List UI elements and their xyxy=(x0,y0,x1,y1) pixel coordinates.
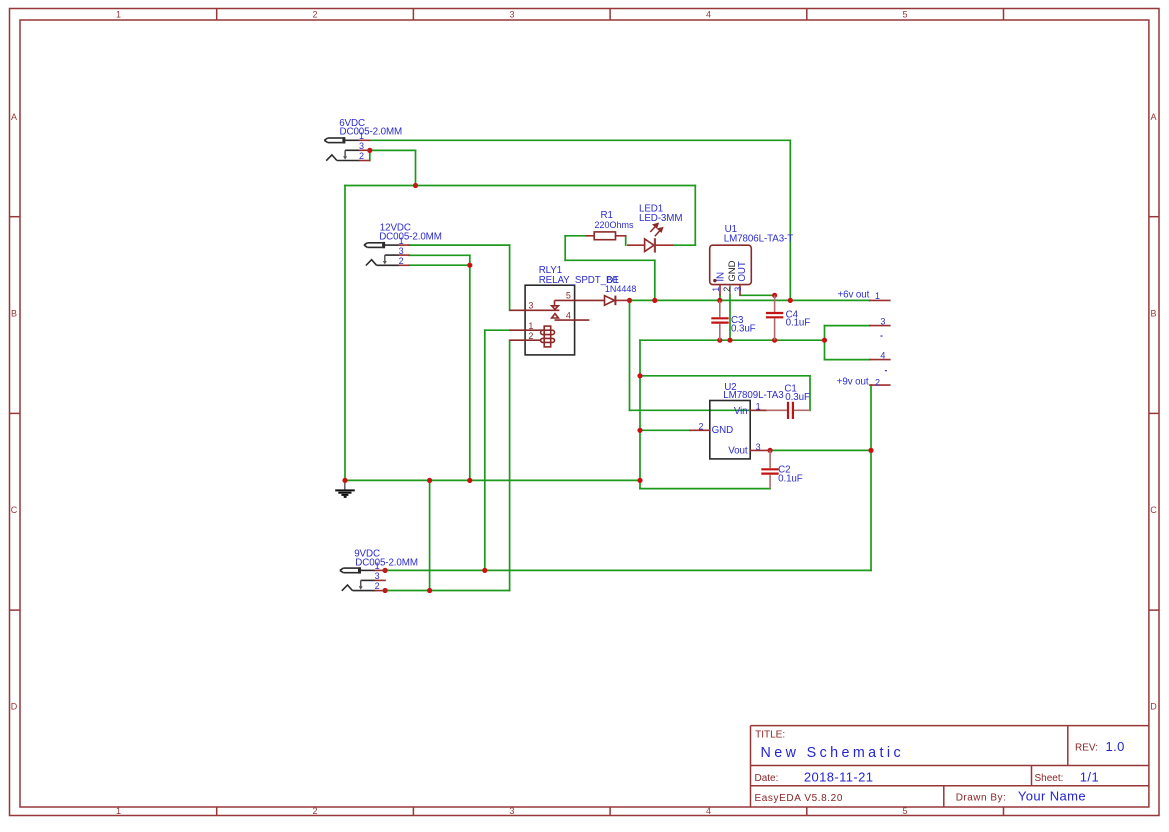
svg-text:Your Name: Your Name xyxy=(1018,789,1086,804)
title block xyxy=(751,726,1149,807)
svg-text:IN: IN xyxy=(716,272,727,282)
svg-text:Vout: Vout xyxy=(728,446,748,457)
junction 9VDC pin2 xyxy=(383,588,388,593)
junction U2 Vout xyxy=(768,448,773,453)
svg-text:1: 1 xyxy=(116,806,121,816)
wire 12VDC pin2 right xyxy=(409,264,470,266)
junction ground rail c xyxy=(637,478,642,483)
diode D1 1N4448 xyxy=(605,275,637,305)
svg-text:D: D xyxy=(11,702,18,712)
junction D1 cathode xyxy=(627,298,632,303)
svg-text:220Ohms: 220Ohms xyxy=(595,220,635,230)
svg-text:3: 3 xyxy=(399,246,404,256)
svg-text:1: 1 xyxy=(528,321,533,331)
svg-text:B: B xyxy=(1150,309,1156,319)
svg-text:2: 2 xyxy=(399,256,404,266)
svg-text:LM7809L-TA3: LM7809L-TA3 xyxy=(723,390,784,401)
svg-text:Date:: Date: xyxy=(755,773,779,784)
wire U2 Vin feed xyxy=(630,409,767,411)
wire to R1 left xyxy=(565,235,586,237)
svg-text:0.3uF: 0.3uF xyxy=(785,392,810,403)
svg-text:1: 1 xyxy=(756,402,761,412)
wire gnd rail y340 xyxy=(640,339,825,341)
svg-text:4: 4 xyxy=(566,311,571,321)
svg-text:TITLE:: TITLE: xyxy=(755,729,785,740)
junction relay feed 9v xyxy=(482,568,487,573)
wire C1 top horizontal xyxy=(640,375,810,377)
svg-text:2: 2 xyxy=(722,287,732,292)
svg-text:LM7806L-TA3-T: LM7806L-TA3-T xyxy=(724,233,793,244)
LED LED1 LED-3MM xyxy=(628,204,683,253)
svg-text:5: 5 xyxy=(566,290,571,300)
svg-text:REV:: REV: xyxy=(1075,743,1098,754)
svg-text:3: 3 xyxy=(509,10,514,20)
svg-text:2: 2 xyxy=(875,378,880,388)
junction C1 loop xyxy=(637,373,642,378)
frame column ticks top xyxy=(217,9,1004,21)
junction ground rail a xyxy=(427,478,432,483)
wire gnd to C2 bottom xyxy=(640,488,770,490)
svg-text:1: 1 xyxy=(875,291,880,301)
junction 9VDC gnd xyxy=(427,588,432,593)
wire +9v vertical xyxy=(870,385,872,570)
svg-text:EasyEDA V5.8.20: EasyEDA V5.8.20 xyxy=(755,793,844,804)
frame row ticks right xyxy=(1149,217,1159,610)
wire 6VDC pin3 right xyxy=(370,149,416,151)
ground xyxy=(335,483,355,497)
regulator U2 LM7809L-TA3 xyxy=(690,382,784,459)
relay RLY1 RELAY_SPDT xyxy=(510,265,620,355)
wire R1 left down xyxy=(564,236,566,260)
wire 6VDC pin3 to pin2 xyxy=(369,150,371,160)
svg-text:C: C xyxy=(1150,505,1157,515)
wire to U2 GND pin xyxy=(640,429,690,431)
wire 12VDC gnd down xyxy=(469,265,471,480)
wire relay pin1 down to 9VDC pin1 xyxy=(484,330,486,570)
junction LED branch xyxy=(652,298,657,303)
svg-text:1: 1 xyxy=(359,131,364,141)
svg-text:GND: GND xyxy=(712,425,733,436)
wire down to relay pin3 xyxy=(509,245,511,310)
svg-text:New Schematic: New Schematic xyxy=(761,745,905,761)
wire 12VDC pin3 right xyxy=(409,254,470,256)
regulator U1 LM7806L-TA3-T xyxy=(710,224,794,295)
svg-text:D: D xyxy=(1150,702,1157,712)
svg-text:1.0: 1.0 xyxy=(1106,739,1125,754)
svg-text:DC005-2.0MM: DC005-2.0MM xyxy=(340,127,403,138)
svg-text:DC005-2.0MM: DC005-2.0MM xyxy=(379,231,442,242)
svg-text:0.3uF: 0.3uF xyxy=(731,323,756,334)
wire down to +6v node xyxy=(654,260,656,300)
wire horizontal bus y185 xyxy=(345,185,695,187)
junction C4 top xyxy=(772,293,777,298)
frame column numbers bottom xyxy=(116,806,908,816)
junction ground rail b xyxy=(467,478,472,483)
capacitor C4 0.1uF xyxy=(766,295,810,340)
junction +9v cross xyxy=(868,448,873,453)
svg-text:1N4448: 1N4448 xyxy=(605,284,637,294)
svg-text:2: 2 xyxy=(312,10,317,20)
wire U1 pin1 short xyxy=(719,295,721,301)
svg-text:3: 3 xyxy=(756,442,761,452)
wire left rail to ground xyxy=(344,186,346,481)
svg-text:Vin: Vin xyxy=(734,406,748,417)
junction C3 bottom xyxy=(717,338,722,343)
frame column ticks bottom xyxy=(217,807,1004,816)
svg-text:1: 1 xyxy=(375,561,380,571)
junction C3 top xyxy=(717,298,722,303)
junction U2 gnd xyxy=(637,428,642,433)
junction 9VDC pin1 xyxy=(383,568,388,573)
connector 6VDC (DC005-2.0MM) xyxy=(324,118,402,161)
svg-text:LED-3MM: LED-3MM xyxy=(639,213,682,224)
svg-text:A: A xyxy=(11,112,17,122)
svg-text:2: 2 xyxy=(312,806,317,816)
wire main +6v line xyxy=(630,299,870,301)
svg-text:0.1uF: 0.1uF xyxy=(778,474,803,485)
svg-text:5: 5 xyxy=(902,806,907,816)
wire 12VDC pin3 down xyxy=(469,255,471,265)
svg-text:3: 3 xyxy=(880,317,885,327)
wire 9VDC pin2 right xyxy=(385,590,510,592)
wire out pin3/4 vertical xyxy=(824,326,826,360)
svg-text:2: 2 xyxy=(375,581,380,591)
svg-text:DC005-2.0MM: DC005-2.0MM xyxy=(355,557,418,568)
junction U1 gnd xyxy=(727,338,732,343)
wire 9VDC pin1 to +9v xyxy=(385,569,871,571)
svg-text:1: 1 xyxy=(116,10,121,20)
svg-text:3: 3 xyxy=(359,141,364,151)
wire D1 node down xyxy=(629,300,631,410)
frame column numbers top xyxy=(116,10,908,20)
wire R1 right to LED anode xyxy=(625,236,627,245)
wire out pin4 xyxy=(825,359,870,361)
wire C1 right vertical xyxy=(809,376,811,411)
wire U1 pin2 gnd xyxy=(729,295,731,340)
junction 12VDC pin2 xyxy=(467,263,472,268)
svg-text:Sheet:: Sheet: xyxy=(1035,773,1064,784)
wire ground rail xyxy=(345,479,640,481)
wire U2 Vout to +9v rail xyxy=(770,449,871,451)
svg-text:2: 2 xyxy=(359,151,364,161)
svg-text:4: 4 xyxy=(706,806,711,816)
net port pin 3 xyxy=(870,317,890,337)
capacitor C1 0.3uF xyxy=(766,384,810,419)
capacitor C3 0.3uF xyxy=(711,300,755,340)
svg-text:C: C xyxy=(11,505,18,515)
svg-text:+9v out: +9v out xyxy=(837,376,869,387)
wire 6VDC pin1 to top right xyxy=(370,139,791,141)
svg-text:0.1uF: 0.1uF xyxy=(786,317,811,328)
junction gnd rail out xyxy=(822,338,827,343)
junction 6VDC pin3 xyxy=(367,148,372,153)
svg-text:5: 5 xyxy=(902,10,907,20)
wire relay pin1 stub xyxy=(485,329,510,331)
svg-text:2: 2 xyxy=(528,331,533,341)
svg-text:3: 3 xyxy=(528,300,533,310)
junction ground symbol xyxy=(342,478,347,483)
frame row letters left xyxy=(11,112,18,712)
svg-text:1: 1 xyxy=(399,236,404,246)
wire relay pin2 down xyxy=(509,340,511,590)
net port pin 4 xyxy=(870,350,890,371)
svg-text:3: 3 xyxy=(375,571,380,581)
resistor R1 220Ohms xyxy=(586,210,634,240)
svg-text:Drawn By:: Drawn By: xyxy=(956,793,1007,804)
junction bus y185 xyxy=(413,183,418,188)
svg-text:1/1: 1/1 xyxy=(1080,769,1099,784)
junction +6v feed xyxy=(788,298,793,303)
svg-text:2: 2 xyxy=(698,422,703,432)
wire 12VDC pin1 right xyxy=(409,244,509,246)
svg-text:4: 4 xyxy=(706,10,711,20)
wire LED cathode stub xyxy=(673,244,696,246)
wire down to bus xyxy=(415,150,417,185)
frame row letters right xyxy=(1150,112,1157,712)
net port +9v out pin 2 xyxy=(837,376,890,387)
svg-text:2018-11-21: 2018-11-21 xyxy=(804,769,874,784)
net port +6v out pin 1 xyxy=(838,290,890,301)
svg-text:3: 3 xyxy=(733,287,743,292)
svg-text:1: 1 xyxy=(711,287,721,292)
capacitor C2 0.1uF xyxy=(761,450,802,488)
wire U1 pin3 to C4 xyxy=(740,294,775,296)
svg-text:3: 3 xyxy=(509,806,514,816)
wire vertical down to +6v node xyxy=(789,140,791,300)
junction C4 bottom xyxy=(772,338,777,343)
frame row ticks left xyxy=(10,217,21,610)
wire gnd rail vertical x640 xyxy=(639,340,641,488)
svg-text:+6v out: +6v out xyxy=(838,290,870,301)
svg-text:4: 4 xyxy=(880,350,885,360)
svg-text:OUT: OUT xyxy=(737,261,748,281)
wire ground to 9VDC pin2 xyxy=(429,480,431,590)
svg-text:B: B xyxy=(11,309,17,319)
wire horizontal y260 xyxy=(565,259,655,261)
wire out pin3 xyxy=(825,325,870,327)
connector 9VDC (DC005-2.0MM) xyxy=(340,549,418,592)
connector 12VDC (DC005-2.0MM) xyxy=(364,223,442,266)
wire down to LED cathode xyxy=(694,186,696,246)
svg-text:A: A xyxy=(1150,112,1156,122)
